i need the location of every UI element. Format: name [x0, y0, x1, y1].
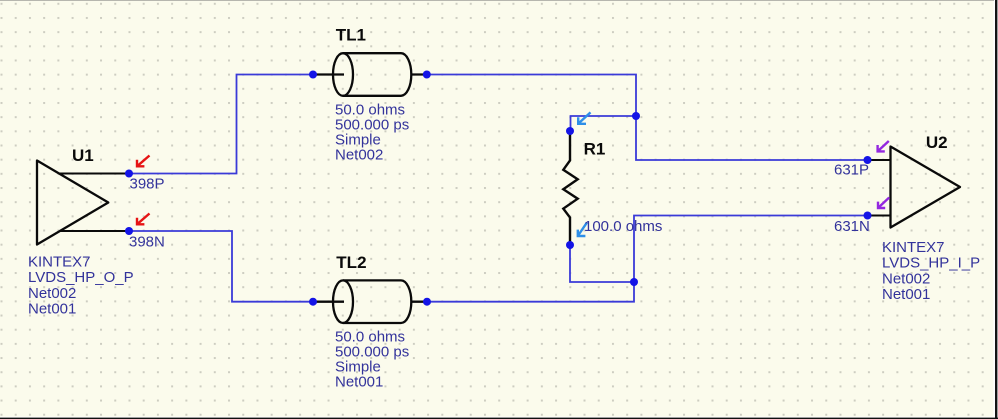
svg-text:KINTEX7: KINTEX7 [28, 253, 91, 270]
svg-text:R1: R1 [584, 139, 606, 158]
svg-text:Net002: Net002 [28, 285, 76, 302]
svg-text:100.0 ohms: 100.0 ohms [584, 218, 662, 235]
svg-text:TL2: TL2 [336, 253, 366, 272]
svg-text:Net001: Net001 [335, 374, 383, 391]
svg-text:U2: U2 [926, 133, 948, 152]
svg-text:U1: U1 [72, 146, 94, 165]
svg-text:Net002: Net002 [335, 147, 383, 164]
svg-text:KINTEX7: KINTEX7 [882, 239, 945, 256]
svg-text:LVDS_HP_O_P: LVDS_HP_O_P [28, 269, 134, 286]
svg-text:398N: 398N [129, 234, 165, 251]
svg-text:TL1: TL1 [336, 26, 366, 45]
svg-text:631P: 631P [834, 162, 869, 179]
svg-text:Net002: Net002 [882, 270, 930, 287]
svg-text:Net001: Net001 [882, 286, 930, 303]
svg-text:398P: 398P [130, 175, 165, 192]
svg-text:Net001: Net001 [28, 301, 76, 318]
svg-text:631N: 631N [834, 218, 870, 235]
svg-text:LVDS_HP_I_P: LVDS_HP_I_P [882, 255, 980, 272]
